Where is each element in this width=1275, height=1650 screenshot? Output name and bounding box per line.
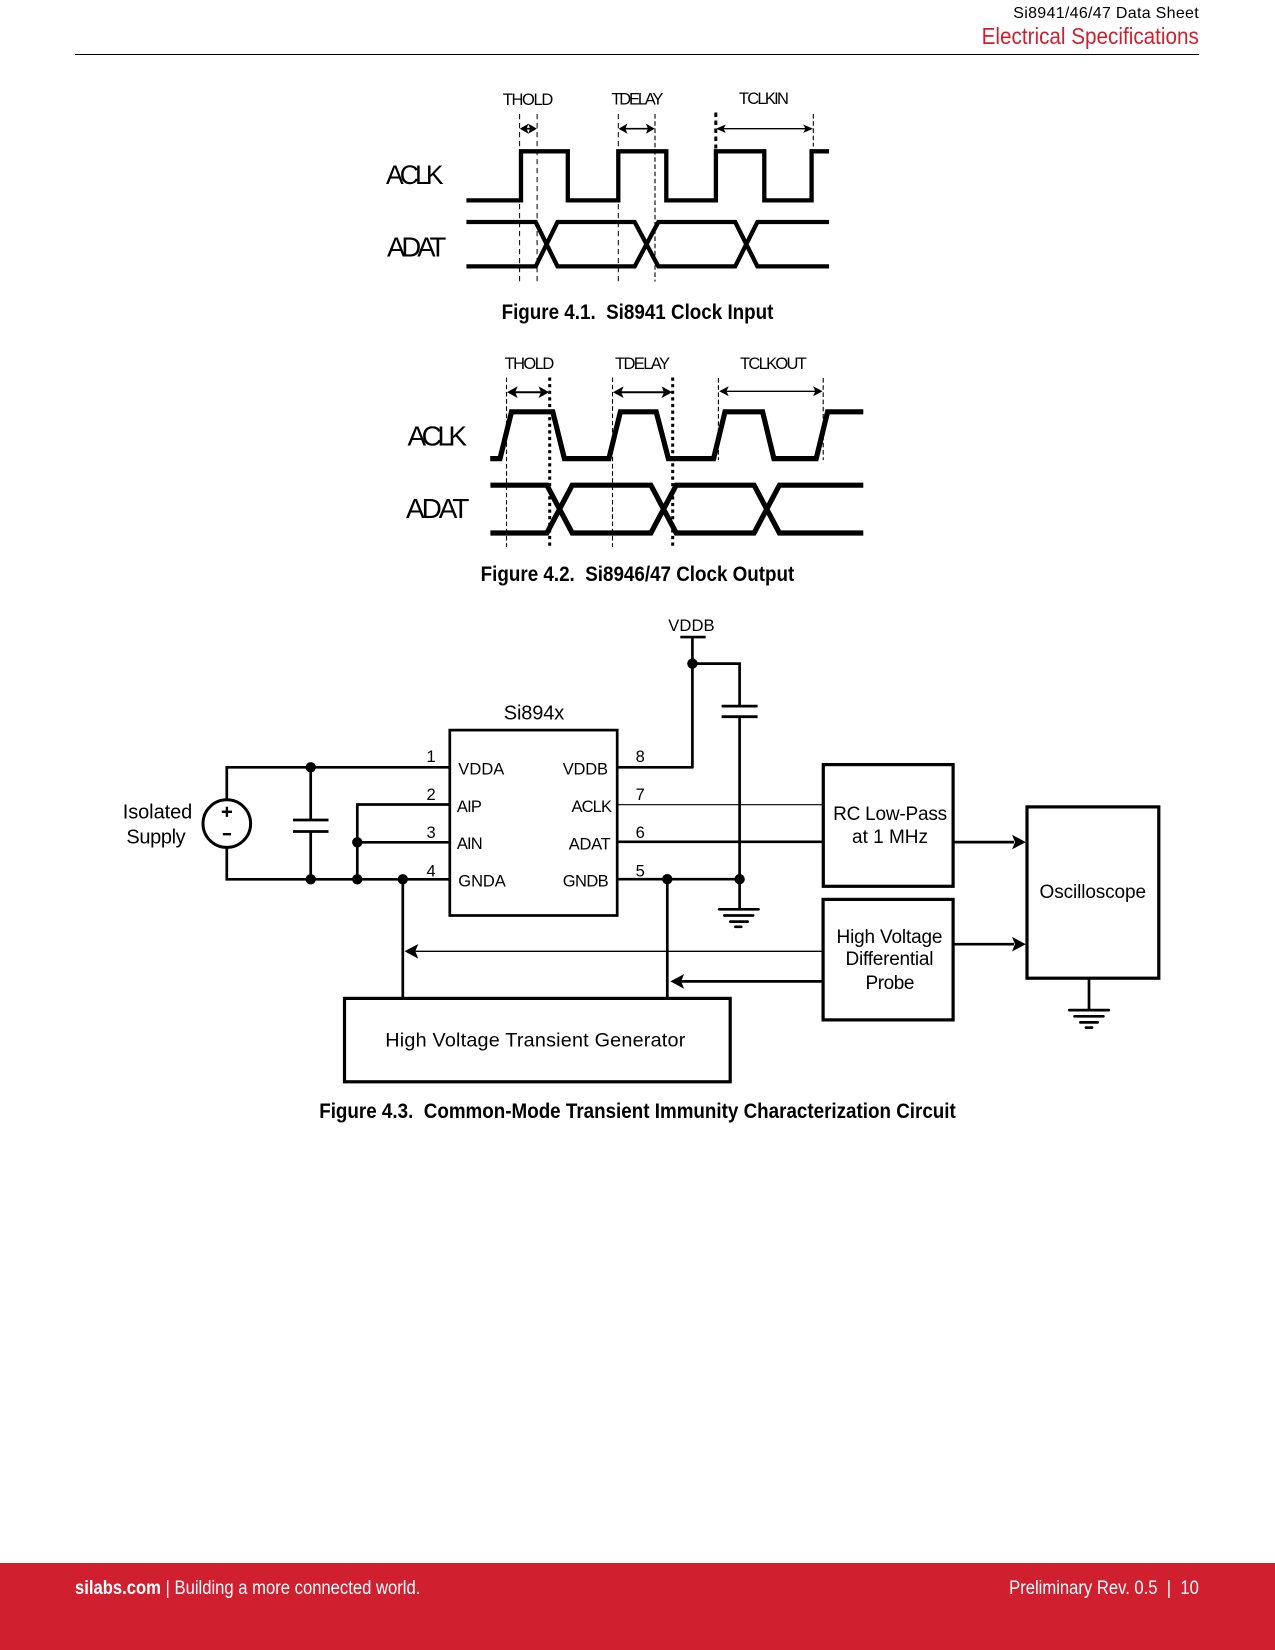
wire C1 bottom [309, 832, 312, 880]
svg-text:ACLK: ACLK [572, 798, 613, 816]
arrow probe to GNDA side sense line [405, 944, 824, 959]
footer right text [1009, 1579, 1199, 1598]
bold dotted marker line at THOLD end (fig 4.2) [548, 378, 551, 548]
node GNDA to transient generator junction dot [398, 874, 408, 884]
wire pin 6 ADAT to RC low-pass [617, 840, 823, 843]
node AIP/AIN to GNDA rail junction dot [352, 874, 362, 884]
thin marker line at ACLK rising edge 4 / TCLKIN end (fig 4.1) [812, 114, 814, 147]
thin marker line at ACLK rise start 1 / THOLD start (fig 4.2) [506, 378, 508, 548]
svg-text:ACLK: ACLK [408, 421, 468, 452]
figure 4.3 circuit schematic [110, 610, 1170, 1090]
svg-text:RC Low-Pass: RC Low-Pass [833, 804, 947, 825]
svg-text:AIN: AIN [457, 835, 483, 853]
wire oscilloscope to ground [1088, 978, 1091, 1010]
node VDDB junction dot [687, 658, 697, 668]
caption figure 4.3 [80, 1101, 1196, 1123]
arrow probe to GNDB side sense line [670, 974, 823, 989]
svg-text:Differential: Differential [846, 949, 934, 970]
footer left text [75, 1579, 420, 1598]
VDDB supply bar [680, 636, 705, 639]
wire GNDB to transient generator [666, 879, 669, 998]
THOLD dimension arrow (fig 4.1) [520, 124, 537, 134]
svg-text:VDDB: VDDB [668, 616, 714, 635]
TDELAY dimension arrow (fig 4.2) [613, 386, 672, 398]
svg-text:1: 1 [427, 748, 436, 766]
svg-text:ADAT: ADAT [406, 493, 469, 524]
wire pin 5 GNDB [617, 878, 739, 881]
node GNDB to transient generator junction dot [662, 874, 672, 884]
chip U1 Si894x box [450, 730, 617, 915]
ground symbol oscilloscope [1069, 1010, 1108, 1028]
svg-text:8: 8 [636, 748, 645, 766]
header rule [75, 54, 1199, 55]
svg-text:High Voltage Transient Generat: High Voltage Transient Generator [385, 1030, 685, 1052]
arrow probe to oscilloscope [953, 937, 1026, 952]
svg-text:High Voltage: High Voltage [837, 927, 943, 948]
footer red bar [0, 1563, 1275, 1650]
dashed marker line at ACLK rising edge 1 (fig 4.1) [519, 114, 521, 282]
svg-text:TCLKIN: TCLKIN [739, 90, 789, 108]
box high voltage differential probe [823, 899, 953, 1020]
svg-text:GNDB: GNDB [563, 872, 609, 890]
TDELAY dimension arrow (fig 4.1) [619, 124, 655, 134]
svg-text:ADAT: ADAT [387, 232, 446, 263]
svg-text:VDDA: VDDA [458, 761, 504, 779]
dashed marker line at ADAT transition 1 / THOLD end (fig 4.1) [536, 114, 538, 282]
header: document title [1013, 6, 1199, 22]
figure 4.2 timing diagram [380, 350, 880, 555]
figure 4.1 timing diagram [380, 85, 840, 290]
svg-text:at 1 MHz: at 1 MHz [852, 827, 928, 848]
node AIN junction dot [352, 837, 362, 847]
svg-text:Supply: Supply [126, 826, 185, 848]
wire C1 top [309, 767, 312, 820]
svg-text:ADAT: ADAT [569, 835, 611, 853]
svg-text:5: 5 [636, 862, 645, 880]
wire AIN pin 3 [357, 841, 450, 844]
solid marker line at ADAT valid / TDELAY end (fig 4.1) [654, 114, 656, 282]
wire V1 bottom to GNDA rail [225, 847, 228, 880]
ADAT data waveform top rail with crossovers (fig 4.2) [490, 485, 863, 533]
box oscilloscope [1027, 807, 1159, 978]
header: section title [982, 25, 1199, 49]
ground symbol GNDB [719, 909, 758, 927]
svg-text:ACLK: ACLK [386, 160, 444, 190]
caption figure 4.1 [80, 302, 1196, 324]
wire GNDA rail [226, 878, 450, 881]
wire VDDB bar to pin 8 [691, 637, 694, 768]
svg-text:2: 2 [427, 786, 436, 804]
node C1 bottom junction dot [306, 874, 316, 884]
thin marker line at ACLK rise start 2 / TDELAY start (fig 4.2) [612, 378, 614, 548]
svg-text:3: 3 [427, 824, 436, 842]
svg-text:GNDA: GNDA [458, 872, 506, 890]
svg-text:AIP: AIP [457, 798, 482, 816]
arrow RC low-pass to oscilloscope [953, 835, 1026, 850]
svg-text:6: 6 [636, 824, 645, 842]
svg-text:7: 7 [636, 786, 645, 804]
capacitor C2 (VDDB bypass) [722, 706, 758, 717]
caption figure 4.2 [80, 564, 1196, 586]
voltage source V1 isolated supply circle [203, 800, 251, 848]
TCLKOUT dimension arrow (fig 4.2) [719, 386, 822, 396]
wire VDDA rail [226, 766, 450, 769]
TCLKIN dimension arrow (fig 4.1) [716, 125, 813, 133]
node capacitor C2 / GNDB junction dot [734, 874, 744, 884]
wire pin 8 to VDDB [617, 766, 692, 769]
dashed marker line at ACLK rising edge 2 / TDELAY start (fig 4.1) [617, 114, 619, 282]
bold dashed marker line at ACLK rising edge 3 / TCLKIN start (fig 4.1) [714, 113, 717, 149]
svg-text:Probe: Probe [866, 973, 915, 994]
thin marker line at ACLK rise start 4 / TCLKOUT end (fig 4.2) [822, 378, 824, 460]
svg-text:THOLD: THOLD [505, 355, 555, 373]
box high voltage transient generator [345, 998, 731, 1081]
wire GNDB junction to ground [738, 879, 741, 909]
ADAT data waveform bottom rail with crossovers (fig 4.1) [466, 222, 829, 266]
thin marker line at ACLK rise start 3 / TCLKOUT start (fig 4.2) [717, 378, 719, 460]
svg-text:TCLKOUT: TCLKOUT [740, 355, 807, 373]
ADAT data waveform bottom rail with crossovers (fig 4.2) [490, 485, 863, 533]
svg-text:VDDB: VDDB [563, 761, 608, 779]
svg-text:Isolated: Isolated [123, 802, 193, 824]
wire V1 top to VDDA rail [225, 766, 228, 800]
wire GNDA to transient generator [401, 879, 404, 998]
ADAT data waveform top rail with crossovers (fig 4.1) [466, 222, 829, 266]
wire pin 7 ACLK to RC low-pass [617, 804, 823, 806]
wire VDDB junction to capacitor C2 [692, 664, 739, 707]
ACLK trapezoidal waveform (fig 4.2) [490, 412, 863, 459]
wire AIP pin 2 [357, 805, 450, 880]
V1 minus sign [223, 833, 231, 835]
svg-text:4: 4 [427, 862, 436, 880]
ACLK square waveform (fig 4.1) [466, 151, 829, 200]
svg-text:TDELAY: TDELAY [615, 355, 670, 373]
svg-text:Si894x: Si894x [504, 703, 564, 725]
V1 plus sign [222, 807, 232, 817]
svg-text:THOLD: THOLD [503, 91, 554, 109]
wire capacitor C2 to GNDB rail [738, 717, 741, 880]
svg-text:Oscilloscope: Oscilloscope [1040, 882, 1147, 903]
bold dotted marker line at TDELAY end (fig 4.2) [671, 378, 674, 548]
box RC low-pass filter [823, 765, 953, 887]
THOLD dimension arrow (fig 4.2) [507, 386, 549, 398]
capacitor C1 (supply bypass) [293, 820, 329, 832]
node C1 top junction dot [306, 762, 316, 772]
svg-text:TDELAY: TDELAY [611, 91, 663, 109]
